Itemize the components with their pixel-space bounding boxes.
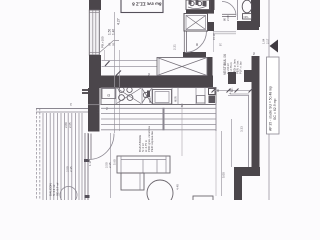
main wall kitchen/hall <box>99 76 213 88</box>
svg-text:90: 90 <box>195 42 199 46</box>
svg-text:2.65: 2.65 <box>68 122 72 128</box>
balcony outer dashed line <box>36 108 38 200</box>
balcony door leaf <box>88 134 90 160</box>
wc door leaf <box>222 13 236 15</box>
hob circles and cross <box>119 87 124 92</box>
svg-text:OPL: OPL <box>244 15 250 19</box>
svg-text:D: D <box>107 94 111 97</box>
bath wall post top <box>209 0 215 10</box>
svg-text:1.04: 1.04 <box>262 38 266 44</box>
leader line window <box>99 41 114 54</box>
svg-text:4.40: 4.40 <box>176 184 180 190</box>
right wall notch <box>244 70 252 82</box>
svg-text:AP 35 - studio SU = 50.48 mp: AP 35 - studio SU = 50.48 mp <box>269 86 273 131</box>
table end line <box>215 103 217 131</box>
balcony door arc <box>89 134 115 160</box>
bath partition wall <box>186 10 214 14</box>
svg-text:SC = 62.9 mp: SC = 62.9 mp <box>273 98 277 120</box>
wall pier top-left above window <box>89 0 101 10</box>
svg-text:SC: 5.7 m²: SC: 5.7 m² <box>55 183 59 196</box>
table left ticks <box>163 108 165 131</box>
window in facade (double line) <box>89 10 99 55</box>
svg-text:PLF: v. lav.: PLF: v. lav. <box>239 61 243 74</box>
wall pier below window <box>89 55 101 88</box>
wardrobe line <box>231 119 233 167</box>
dim row line below wall <box>213 90 251 92</box>
toilet back wall <box>237 21 259 30</box>
svg-text:2.35: 2.35 <box>108 162 112 168</box>
sofa body <box>117 156 170 173</box>
table lines <box>101 108 216 130</box>
svg-text:2.21: 2.21 <box>173 44 177 50</box>
apartment info box <box>267 57 280 134</box>
hall shelf lines <box>102 60 158 62</box>
top neighbour box <box>121 0 163 13</box>
wall bottom-right vertical <box>234 176 242 200</box>
wc partition line <box>237 0 239 20</box>
sink unit cross <box>142 89 152 104</box>
hatched wall stub left <box>82 89 88 91</box>
svg-text:3.33: 3.33 <box>240 126 244 132</box>
balcony table circle <box>60 187 77 204</box>
wall step bottom-right <box>234 167 260 176</box>
sofa chaise <box>121 173 144 190</box>
balcony top edge <box>36 108 88 110</box>
dishwasher D box <box>102 89 116 99</box>
svg-text:Z 08: Z 08 <box>226 15 230 21</box>
svg-text:1.17: 1.17 <box>88 160 92 166</box>
dim tick hall 2 <box>116 71 121 76</box>
balcony deck hatch <box>43 113 82 200</box>
dimension chain line lower <box>110 133 112 198</box>
svg-text:PER: vopsea lav.: PER: vopsea lav. <box>150 131 154 152</box>
corridor boundary line top <box>268 0 270 57</box>
entry section arrow <box>270 40 279 53</box>
closet with X <box>157 58 207 76</box>
fridge unit boxes <box>197 96 206 104</box>
washbasin top <box>186 0 210 10</box>
faucet dark mark <box>147 91 150 98</box>
svg-text:4.27: 4.27 <box>117 18 121 25</box>
svg-text:PB.+100: PB.+100 <box>101 36 105 48</box>
dim tick hall 1 <box>105 61 110 66</box>
connector <box>228 95 249 97</box>
threshold line <box>230 93 249 95</box>
svg-text:5.60: 5.60 <box>113 159 117 165</box>
shower tray <box>184 14 208 32</box>
svg-text:2.17: 2.17 <box>266 38 270 44</box>
svg-text:5.00: 5.00 <box>222 172 226 178</box>
dimension chain line upper <box>114 12 116 133</box>
svg-text:15.1P: 15.1P <box>212 33 216 40</box>
living dim line vertical <box>221 131 223 196</box>
facade pier kitchen <box>88 88 100 132</box>
right wall top block <box>251 0 260 27</box>
kitchen counter outline <box>101 88 216 105</box>
svg-text:2.35: 2.35 <box>69 166 73 172</box>
door post living room <box>228 72 236 84</box>
svg-text:1.40: 1.40 <box>112 29 116 35</box>
bathroom door leaf <box>183 31 185 52</box>
dim line inner kitchen <box>119 50 121 131</box>
closet right pier <box>207 57 213 76</box>
svg-text:8ω ενε ΣΣ.Z 8: 8ω ενε ΣΣ.Z 8 <box>132 2 162 7</box>
facade sill mark 2 <box>85 195 90 198</box>
corridor boundary line bottom <box>268 134 270 200</box>
round table <box>147 180 173 206</box>
facade glazing lines <box>84 133 86 200</box>
kitchen front dim line <box>88 104 101 106</box>
facade sill mark 1 <box>84 159 90 162</box>
tv stand rect <box>193 196 213 202</box>
washing machine box <box>153 90 172 105</box>
window glazing lines <box>92 10 94 55</box>
wc door arc <box>222 2 236 16</box>
right wall inner face line <box>248 95 250 167</box>
svg-text:MS07: MS07 <box>148 96 152 103</box>
vestibule south bar <box>183 52 206 57</box>
bathroom door arc <box>185 31 207 53</box>
svg-text:90: 90 <box>216 88 220 92</box>
right wall main <box>252 56 260 167</box>
counter divider lines <box>116 88 205 105</box>
toilet <box>242 0 252 13</box>
svg-text:1.28: 1.28 <box>228 88 232 94</box>
svg-text:1.43: 1.43 <box>97 107 101 113</box>
bath door post <box>208 22 214 31</box>
vestibule north line <box>213 31 236 33</box>
dim line x182 <box>181 103 183 156</box>
svg-text:05: 05 <box>112 42 116 46</box>
svg-text:MSR: MSR <box>174 96 178 102</box>
